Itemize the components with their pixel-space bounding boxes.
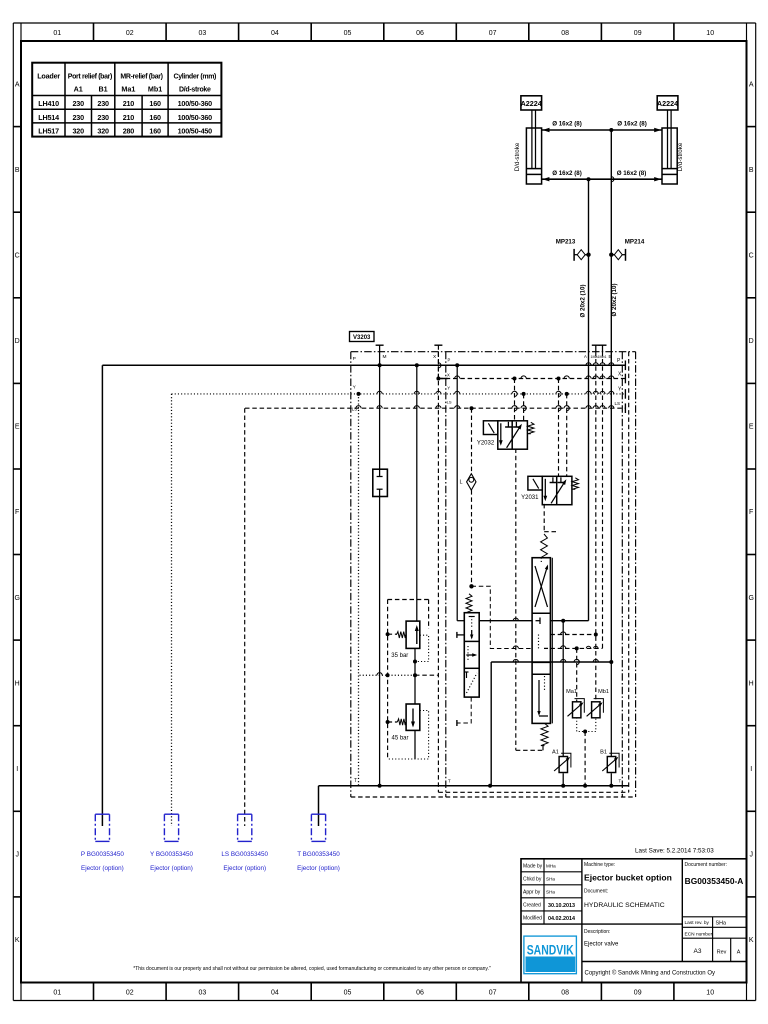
svg-text:30.10.2013: 30.10.2013 — [548, 903, 575, 909]
title block texts — [523, 862, 743, 977]
P connector wire — [101, 365, 103, 826]
svg-text:02: 02 — [126, 30, 134, 37]
port relief valve Ma1 — [566, 689, 584, 718]
svg-text:Document:: Document: — [584, 889, 608, 895]
svg-text:Description:: Description: — [584, 929, 610, 935]
svg-text:05: 05 — [344, 990, 352, 997]
hydraulic cylinder left A2224 — [514, 96, 542, 184]
svg-text:D: D — [749, 338, 754, 345]
svg-text:B: B — [749, 167, 754, 174]
svg-text:LH517: LH517 — [38, 127, 59, 136]
svg-text:V3203: V3203 — [353, 335, 371, 341]
svg-text:Ma1: Ma1 — [566, 689, 577, 695]
svg-text:SANDVIK: SANDVIK — [527, 943, 574, 958]
X pilot bus wire — [436, 374, 625, 384]
svg-text:SHa: SHa — [546, 877, 555, 882]
svg-text:G: G — [14, 595, 19, 602]
svg-text:A1: A1 — [552, 750, 559, 756]
port relief valve Mb1 — [587, 689, 609, 718]
svg-text:A2224: A2224 — [521, 99, 542, 108]
Y2032 pilot drop from X bus — [515, 379, 518, 422]
svg-text:100/50-360: 100/50-360 — [178, 99, 213, 108]
svg-text:Document number:: Document number: — [685, 862, 728, 868]
A1 B1 tank wires — [563, 773, 611, 786]
svg-text:A: A — [737, 950, 741, 956]
connector Y labels — [150, 851, 193, 872]
valve block inner section boundary right — [621, 352, 623, 797]
svg-text:C: C — [15, 253, 20, 260]
LS pilot drop wire — [469, 408, 473, 588]
main spool bottom spring — [541, 723, 548, 745]
LS pilot wire to main spool — [472, 586, 533, 648]
svg-text:ECN number: ECN number — [685, 932, 713, 938]
svg-text:A3: A3 — [694, 948, 702, 955]
Y2031 output wire to spool top pilot — [544, 504, 556, 532]
svg-text:MHa: MHa — [546, 864, 556, 869]
svg-text:P BG00353450: P BG00353450 — [81, 851, 124, 858]
cylinder pipe lower — [542, 177, 662, 181]
svg-text:MP213: MP213 — [556, 238, 576, 245]
svg-text:160: 160 — [149, 99, 161, 108]
svg-text:D/d-stroke: D/d-stroke — [179, 87, 211, 94]
Y connector wire — [171, 394, 173, 826]
block port labels left — [352, 354, 452, 411]
svg-text:280: 280 — [123, 127, 135, 136]
X line top stub — [434, 345, 442, 378]
pipe A vertical wire — [588, 179, 590, 621]
svg-text:A: A — [749, 81, 754, 88]
connector T labels — [297, 851, 340, 872]
svg-text:Ejector (option): Ejector (option) — [297, 865, 340, 872]
svg-text:35 bar: 35 bar — [391, 653, 408, 659]
Ma1 Mb1 drain wires — [577, 718, 596, 786]
port relief valve B1 — [600, 750, 619, 773]
svg-text:Made by: Made by — [523, 864, 543, 870]
svg-text:Y2032: Y2032 — [477, 441, 495, 447]
Mb measure stub at block top — [599, 345, 607, 352]
svg-text:230: 230 — [97, 113, 109, 122]
svg-text:Y BG00353450: Y BG00353450 — [150, 851, 193, 858]
svg-text:Port relief (bar): Port relief (bar) — [68, 74, 112, 81]
Ma measure wire — [595, 352, 597, 702]
svg-text:210: 210 — [123, 99, 135, 108]
relief branch wire from P bus — [413, 365, 417, 759]
Sandvik logo — [524, 936, 577, 974]
svg-text:Cylinder (mm): Cylinder (mm) — [174, 74, 217, 81]
svg-text:1Ma1Mb1: 1Ma1Mb1 — [591, 355, 607, 359]
svg-text:230: 230 — [72, 113, 84, 122]
svg-text:09: 09 — [634, 990, 642, 997]
svg-text:Ø 16x2 (8): Ø 16x2 (8) — [617, 170, 647, 177]
Ma1 feed wire — [577, 648, 580, 701]
loader specification table — [32, 63, 221, 137]
svg-text:M: M — [383, 354, 387, 360]
svg-text:Ø 20x2 (10): Ø 20x2 (10) — [611, 283, 618, 316]
svg-text:SHa: SHa — [716, 921, 727, 927]
svg-text:J: J — [749, 852, 753, 859]
Y pilot bus wire — [172, 389, 626, 399]
svg-text:09: 09 — [634, 30, 642, 37]
svg-text:100/50-450: 100/50-450 — [178, 127, 213, 136]
svg-text:C: C — [749, 253, 754, 260]
svg-text:H: H — [15, 680, 20, 687]
svg-text:A: A — [15, 81, 20, 88]
block port labels right — [584, 354, 622, 406]
connector P — [95, 814, 109, 841]
port relief valve A1 — [552, 750, 571, 773]
main spool top spring — [541, 534, 548, 558]
svg-text:D: D — [15, 338, 20, 345]
svg-text:Machine type:: Machine type: — [584, 862, 615, 868]
connector Y — [164, 814, 178, 841]
svg-text:D/d-stroke: D/d-stroke — [514, 142, 521, 171]
svg-text:Ma1: Ma1 — [121, 85, 135, 94]
svg-text:07: 07 — [489, 30, 497, 37]
svg-text:B: B — [609, 354, 612, 359]
svg-text:Last Save: 5.2.2014 7:53:03: Last Save: 5.2.2014 7:53:03 — [635, 848, 714, 855]
A1 feed wire — [562, 621, 564, 757]
svg-text:G: G — [748, 595, 753, 602]
pilot wire spool right — [550, 646, 602, 651]
svg-text:08: 08 — [561, 990, 569, 997]
connector T — [311, 814, 325, 841]
compensator valve — [464, 594, 479, 697]
LS connector wire — [244, 408, 246, 826]
pipe size labels 20x2 rotated — [580, 283, 618, 317]
svg-text:I: I — [16, 766, 18, 773]
svg-text:10: 10 — [706, 990, 714, 997]
svg-text:T BG00353450: T BG00353450 — [297, 851, 340, 858]
svg-text:Copyright © Sandvik Mining and: Copyright © Sandvik Mining and Construct… — [585, 970, 715, 977]
valve cartridge dashed boundary — [438, 352, 628, 793]
svg-text:Mb1: Mb1 — [598, 689, 609, 695]
svg-text:10: 10 — [706, 30, 714, 37]
svg-text:Last rev. by: Last rev. by — [685, 920, 710, 926]
svg-text:L: L — [459, 480, 462, 486]
relief valve 45 bar — [386, 704, 420, 742]
svg-text:Ejector (option): Ejector (option) — [223, 865, 266, 872]
svg-text:230: 230 — [97, 99, 109, 108]
svg-text:08: 08 — [561, 30, 569, 37]
svg-text:Ejector (option): Ejector (option) — [150, 865, 193, 872]
svg-text:LS BG00353450: LS BG00353450 — [221, 851, 268, 858]
svg-text:Y: Y — [447, 386, 450, 391]
main spool valve — [532, 558, 552, 724]
45 bar bypass dotted — [388, 711, 429, 760]
compensator drain wire — [457, 697, 471, 726]
measuring point MP213 — [556, 238, 591, 260]
svg-text:MR-relief (bar): MR-relief (bar) — [120, 74, 162, 81]
orifice plug on M line — [373, 469, 388, 496]
svg-text:320: 320 — [72, 127, 84, 136]
T return wire — [319, 784, 629, 826]
Y2032 pilot drop from Y bus — [524, 394, 527, 422]
valve block outer dash-dot boundary — [351, 352, 636, 797]
svg-text:Ejector valve: Ejector valve — [584, 942, 619, 948]
svg-text:P: P — [353, 356, 356, 362]
svg-text:B1: B1 — [98, 85, 107, 94]
svg-text:160: 160 — [149, 113, 161, 122]
svg-text:LS: LS — [447, 399, 452, 404]
svg-text:D/d-stroke: D/d-stroke — [677, 142, 684, 171]
svg-text:T: T — [354, 778, 357, 784]
svg-text:Ejector bucket option: Ejector bucket option — [584, 873, 672, 883]
valve block V3203 label — [350, 332, 375, 342]
svg-text:B1: B1 — [600, 750, 607, 756]
svg-text:06: 06 — [416, 990, 424, 997]
svg-text:E: E — [15, 424, 20, 431]
pipe B vertical wire — [611, 130, 614, 662]
svg-text:04.02.2014: 04.02.2014 — [548, 916, 575, 922]
svg-text:Y2031: Y2031 — [521, 495, 539, 501]
svg-text:I: I — [750, 766, 752, 773]
svg-text:210: 210 — [123, 113, 135, 122]
svg-text:J: J — [15, 852, 19, 859]
connector LS labels — [221, 851, 268, 872]
svg-text:LH410: LH410 — [38, 99, 59, 108]
svg-text:P: P — [448, 358, 451, 363]
svg-text:A1: A1 — [74, 85, 83, 94]
solenoid valve Y2031 — [521, 476, 578, 504]
svg-text:*This document is our property: *This document is our property and shall… — [133, 966, 491, 972]
work port B wire — [491, 659, 613, 785]
M line wire and top stub — [376, 345, 384, 786]
35 bar enclosure dashed — [386, 600, 429, 760]
Ma measure stub at block top — [592, 345, 600, 352]
connector P labels — [81, 851, 124, 872]
svg-text:LS: LS — [615, 401, 621, 406]
svg-text:160: 160 — [149, 127, 161, 136]
pipe size labels 16x2 — [552, 121, 647, 178]
title block grid — [521, 859, 747, 983]
svg-text:Mb1: Mb1 — [148, 85, 162, 94]
svg-text:03: 03 — [199, 990, 207, 997]
Y2031 pilot drop from Y bus — [567, 394, 570, 476]
connector LS — [238, 814, 252, 841]
svg-text:LS: LS — [352, 407, 357, 412]
last save annotation — [635, 848, 714, 855]
solenoid valve Y2032 — [477, 421, 534, 449]
compensator plugged port stub — [457, 632, 464, 638]
svg-text:320: 320 — [97, 127, 109, 136]
svg-text:A: A — [584, 354, 587, 359]
svg-text:05: 05 — [344, 30, 352, 37]
svg-text:LH514: LH514 — [38, 113, 59, 122]
svg-text:Ejector (option): Ejector (option) — [81, 865, 124, 872]
svg-text:03: 03 — [199, 30, 207, 37]
Y2032 output wire to spool bottom pilot — [516, 449, 543, 751]
svg-text:Appr by: Appr by — [523, 890, 541, 896]
svg-text:MP214: MP214 — [625, 238, 645, 245]
P drop wire to compensator — [457, 365, 464, 620]
svg-text:02: 02 — [126, 990, 134, 997]
svg-text:T: T — [619, 779, 622, 784]
B1 feed wire — [610, 662, 612, 757]
35 bar bypass dotted — [415, 635, 429, 661]
valve block inner section boundary left — [445, 352, 447, 797]
svg-text:Modified: Modified — [523, 916, 542, 922]
svg-text:B: B — [15, 167, 20, 174]
cylinder pipe upper — [542, 128, 662, 132]
LS bus wire — [245, 403, 625, 413]
svg-text:X: X — [447, 373, 450, 378]
svg-text:A2224: A2224 — [657, 99, 678, 108]
svg-text:100/50-360: 100/50-360 — [178, 113, 213, 122]
svg-text:BG00353450-A: BG00353450-A — [685, 876, 744, 886]
svg-text:04: 04 — [271, 30, 279, 37]
svg-text:K: K — [15, 937, 20, 944]
svg-text:Ø 16x2 (8): Ø 16x2 (8) — [617, 121, 647, 128]
measuring point MP214 — [609, 238, 645, 260]
svg-text:01: 01 — [53, 990, 61, 997]
hydraulic cylinder right A2224 — [657, 96, 684, 184]
svg-text:SHa: SHa — [546, 890, 555, 895]
T port labels — [354, 778, 622, 784]
svg-text:Ø 20x2 (10): Ø 20x2 (10) — [580, 284, 587, 317]
svg-text:04: 04 — [271, 990, 279, 997]
svg-text:T: T — [448, 779, 451, 784]
svg-text:01: 01 — [53, 30, 61, 37]
svg-text:45 bar: 45 bar — [391, 736, 408, 742]
property fine print — [133, 966, 491, 972]
measure wire to Mb1 — [550, 632, 597, 637]
svg-text:F: F — [749, 509, 753, 516]
filter orifice symbol — [459, 474, 476, 490]
Y2031 pilot drop from X bus — [559, 379, 562, 477]
svg-text:K: K — [749, 937, 754, 944]
svg-text:Chkd by: Chkd by — [523, 877, 542, 883]
svg-text:07: 07 — [489, 990, 497, 997]
Mb measure wire — [602, 352, 604, 649]
P supply bus wire — [102, 361, 625, 371]
svg-text:E: E — [749, 424, 754, 431]
svg-text:Rev: Rev — [717, 950, 727, 956]
svg-text:Ø 16x2 (8): Ø 16x2 (8) — [552, 121, 582, 128]
relief valve 35 bar — [388, 621, 420, 659]
svg-text:F: F — [15, 509, 19, 516]
svg-text:Created: Created — [523, 903, 541, 909]
svg-text:HYDRAULIC SCHEMATIC: HYDRAULIC SCHEMATIC — [584, 902, 665, 909]
svg-text:230: 230 — [72, 99, 84, 108]
svg-text:H: H — [749, 680, 754, 687]
relief drain dotted wire — [359, 394, 439, 786]
svg-text:06: 06 — [416, 30, 424, 37]
svg-text:Ø 16x2 (8): Ø 16x2 (8) — [552, 170, 582, 177]
svg-text:Loader: Loader — [37, 72, 60, 81]
work port A wire — [479, 618, 588, 623]
